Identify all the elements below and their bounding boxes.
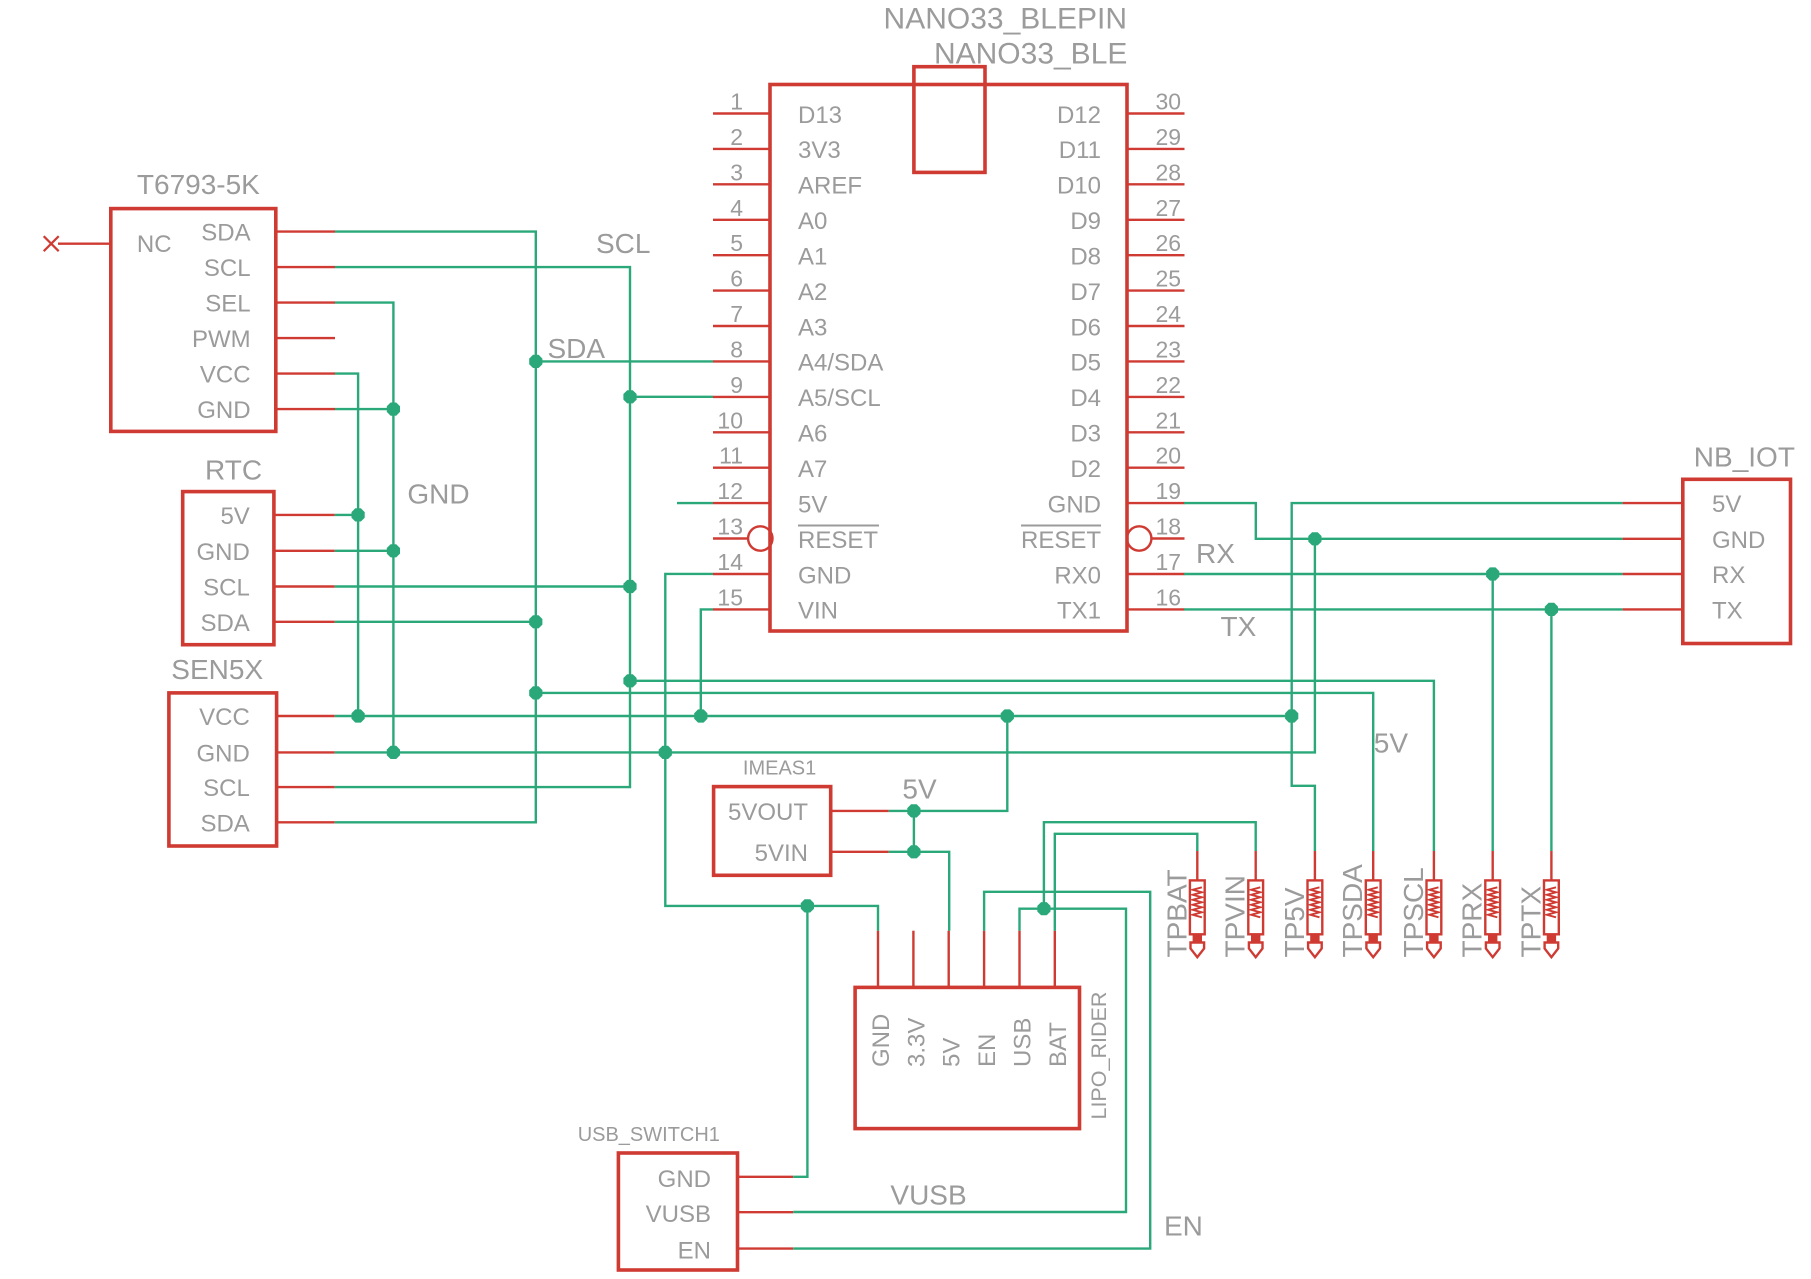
pin 3.3V of LIPO_RIDER [903, 931, 930, 1067]
svg-text:3.3V: 3.3V [903, 1018, 930, 1067]
junction [623, 390, 636, 403]
net label SCL [596, 228, 650, 259]
label T6793-5K [137, 169, 260, 200]
pin 6 A2 [713, 266, 827, 306]
svg-text:5V: 5V [902, 774, 937, 805]
svg-text:USB_SWITCH1: USB_SWITCH1 [578, 1124, 720, 1146]
pin SCL of SEN5X [203, 775, 335, 802]
wire SCL row to TPSCL [630, 681, 1434, 851]
wire EN from USB_SWITCH1 EN [793, 892, 1150, 1249]
svg-text:TPBAT: TPBAT [1161, 869, 1192, 957]
junction [352, 508, 365, 521]
pin 10 A6 [713, 407, 827, 447]
svg-text:RX0: RX0 [1054, 562, 1101, 589]
label TPSCL [1398, 867, 1429, 957]
svg-text:VUSB: VUSB [890, 1180, 966, 1211]
svg-text:5V: 5V [939, 1038, 966, 1067]
label SEN5X [171, 654, 263, 685]
svg-text:RESET: RESET [798, 527, 878, 554]
wire 5V stub at pin 12 [677, 502, 713, 504]
part NANO33_BLE notch [914, 67, 985, 173]
svg-text:PWM: PWM [192, 326, 251, 353]
svg-text:SCL: SCL [203, 575, 250, 602]
svg-text:26: 26 [1156, 230, 1182, 256]
pin 4 A0 [713, 195, 827, 235]
svg-text:VCC: VCC [200, 362, 251, 389]
net label VUSB [890, 1180, 966, 1211]
label NANO33_BLE [934, 37, 1127, 70]
svg-text:GND: GND [1712, 527, 1765, 554]
svg-text:9: 9 [730, 372, 743, 398]
svg-text:D13: D13 [798, 102, 842, 129]
label TPSDA [1337, 864, 1368, 958]
pin RX of NB_IOT [1623, 562, 1746, 589]
pin SCL of RTC [203, 575, 335, 602]
svg-text:SDA: SDA [200, 810, 249, 837]
svg-text:SDA: SDA [200, 610, 249, 637]
svg-text:TP5V: TP5V [1279, 887, 1310, 957]
pin 5V of RTC [220, 503, 334, 530]
net label TX [1221, 611, 1257, 642]
pin 1 D13 [713, 89, 842, 129]
svg-text:11: 11 [719, 443, 743, 469]
svg-text:14: 14 [717, 549, 743, 575]
pin SDA of RTC [200, 610, 334, 637]
svg-text:24: 24 [1156, 301, 1182, 327]
pin SDA of SEN5X [200, 810, 334, 837]
label TPRX [1457, 883, 1488, 958]
svg-text:28: 28 [1156, 159, 1182, 185]
wire RX from pin 17 RX0 to NB_IOT RX [1184, 573, 1623, 575]
svg-text:GND: GND [197, 397, 250, 424]
svg-text:D8: D8 [1070, 244, 1101, 271]
test point TPRX [1485, 851, 1500, 957]
pin 5VIN of IMEAS1 [755, 840, 889, 867]
wire 5V to RTC 5V [335, 514, 358, 516]
svg-text:D5: D5 [1070, 350, 1101, 377]
wire SDA to pin 8 A4/SDA [536, 360, 713, 362]
label NB_IOT [1694, 442, 1795, 473]
junction [623, 580, 636, 593]
svg-text:RESET: RESET [1021, 527, 1101, 554]
junction [623, 674, 636, 687]
svg-text:D7: D7 [1070, 279, 1101, 306]
test point TPSDA [1366, 851, 1381, 957]
svg-text:A6: A6 [798, 421, 827, 448]
svg-text:30: 30 [1156, 89, 1182, 115]
svg-text:SCL: SCL [204, 255, 251, 282]
junction [529, 355, 542, 368]
pin 20 D2 [1070, 443, 1184, 483]
wire 5V dogleg to TP5V [1292, 716, 1315, 851]
svg-text:D9: D9 [1070, 208, 1101, 235]
junction [1545, 603, 1558, 616]
svg-text:5VIN: 5VIN [755, 840, 808, 867]
svg-text:AREF: AREF [798, 173, 862, 200]
svg-text:GND: GND [1048, 491, 1101, 518]
part LIPO_RIDER body [855, 987, 1079, 1128]
svg-text:D11: D11 [1059, 137, 1101, 164]
wire SCL from T6793 SCL down to SEN5X SCL [335, 267, 630, 787]
svg-text:18: 18 [1156, 514, 1182, 540]
svg-text:A2: A2 [798, 279, 827, 306]
pin BAT of LIPO_RIDER [1045, 931, 1072, 1067]
pin 18 RESET [1021, 514, 1185, 554]
svg-text:SDA: SDA [201, 220, 250, 247]
svg-text:12: 12 [717, 478, 743, 504]
svg-text:D10: D10 [1057, 173, 1101, 200]
label RTC [205, 455, 262, 486]
svg-text:2: 2 [730, 124, 743, 150]
wire SCL to RTC SCL [335, 585, 630, 587]
svg-text:NB_IOT: NB_IOT [1694, 442, 1795, 473]
junction [907, 845, 920, 858]
wire TX branch to TPTX [1550, 609, 1552, 851]
junction [694, 709, 707, 722]
svg-text:TPRX: TPRX [1457, 883, 1488, 958]
pin 29 D11 [1059, 124, 1185, 164]
pin SCL of T6793-5K [204, 255, 335, 282]
svg-text:10: 10 [717, 407, 743, 433]
svg-text:EN: EN [974, 1034, 1001, 1067]
svg-text:20: 20 [1156, 443, 1182, 469]
svg-text:5: 5 [730, 230, 743, 256]
wire 5V riser to IMEAS1 5VOUT [889, 716, 1008, 811]
junction [387, 403, 400, 416]
test point TP5V [1308, 851, 1323, 957]
junction [659, 746, 672, 759]
svg-text:16: 16 [1156, 584, 1182, 610]
svg-text:TPVIN: TPVIN [1220, 875, 1251, 957]
pin 7 A3 [713, 301, 827, 341]
wire 5V from pin 15 VIN [701, 609, 713, 716]
svg-text:D6: D6 [1070, 314, 1101, 341]
svg-text:VUSB: VUSB [646, 1201, 711, 1228]
svg-text:A5/SCL: A5/SCL [798, 385, 881, 412]
net label GND [407, 479, 469, 510]
svg-text:8: 8 [730, 336, 743, 362]
svg-text:GND: GND [658, 1166, 711, 1193]
svg-text:17: 17 [1156, 549, 1182, 575]
wire 5VIN to LIPO_RIDER 5V [889, 852, 949, 931]
svg-text:5VOUT: 5VOUT [728, 799, 808, 826]
pin TX of NB_IOT [1623, 597, 1743, 624]
svg-text:NANO33_BLEPIN: NANO33_BLEPIN [884, 3, 1127, 36]
junction [1001, 709, 1014, 722]
svg-text:TPSDA: TPSDA [1337, 864, 1368, 958]
svg-text:T6793-5K: T6793-5K [137, 169, 260, 200]
pin 24 D6 [1070, 301, 1184, 341]
wire GND branch to USB_SWITCH1 GND [793, 906, 807, 1177]
junction [387, 746, 400, 759]
junction [1486, 567, 1499, 580]
svg-text:21: 21 [1156, 407, 1182, 433]
label IMEAS1 [743, 758, 816, 780]
label TPVIN [1220, 875, 1251, 957]
net label 5V [902, 774, 937, 805]
pin GND of SEN5X [196, 740, 334, 767]
pin GND of NB_IOT [1623, 527, 1766, 554]
svg-text:RX: RX [1196, 538, 1235, 569]
pin 21 D3 [1070, 407, 1184, 447]
svg-text:NANO33_BLE: NANO33_BLE [934, 37, 1127, 70]
svg-text:15: 15 [717, 584, 743, 610]
junction [1308, 532, 1321, 545]
no-connect X [44, 236, 59, 251]
svg-text:IMEAS1: IMEAS1 [743, 758, 816, 780]
wire GND from pin 14 down to LIPO_RIDER GND [665, 574, 878, 931]
svg-text:TX1: TX1 [1057, 598, 1101, 625]
svg-text:A1: A1 [798, 244, 827, 271]
svg-text:5V: 5V [220, 503, 249, 530]
junction [352, 709, 365, 722]
svg-text:SEN5X: SEN5X [171, 654, 263, 685]
svg-text:SDA: SDA [548, 333, 606, 364]
test point TPVIN [1248, 851, 1263, 957]
part SEN5X body [169, 693, 277, 846]
svg-text:D3: D3 [1070, 421, 1101, 448]
pin 9 A5/SCL [713, 372, 881, 412]
svg-text:RX: RX [1712, 562, 1745, 589]
svg-text:SCL: SCL [203, 775, 250, 802]
svg-text:EN: EN [1164, 1211, 1203, 1242]
junction [1037, 902, 1050, 915]
pin 17 RX0 [1054, 549, 1184, 589]
svg-text:EN: EN [678, 1238, 711, 1265]
net label SDA [548, 333, 606, 364]
svg-text:SEL: SEL [205, 291, 250, 318]
pin 2 3V3 [713, 124, 841, 164]
svg-text:A4/SDA: A4/SDA [798, 350, 883, 377]
svg-text:LIPO_RIDER: LIPO_RIDER [1087, 992, 1111, 1120]
pin 22 D4 [1070, 372, 1184, 412]
pin 5V of LIPO_RIDER [939, 931, 966, 1067]
wire TX from pin 16 TX1 to NB_IOT TX [1184, 608, 1623, 610]
svg-text:5V: 5V [798, 491, 827, 518]
test point TPSCL [1427, 851, 1442, 957]
svg-text:3: 3 [730, 159, 743, 185]
wire SDA from T6793 SDA down to SEN5X SDA [335, 232, 536, 823]
label USB_SWITCH1 [578, 1124, 720, 1146]
pin VUSB of USB_SWITCH1 [646, 1201, 794, 1228]
pin GND of RTC [196, 539, 334, 566]
svg-text:GND: GND [196, 539, 249, 566]
pin PWM of T6793-5K [192, 326, 335, 353]
pin 16 TX1 [1057, 584, 1185, 624]
svg-text:GND: GND [196, 740, 249, 767]
svg-text:VIN: VIN [798, 598, 838, 625]
pin NC of T6793-5K [58, 231, 172, 258]
svg-text:19: 19 [1156, 478, 1182, 504]
svg-text:13: 13 [717, 514, 743, 540]
svg-text:TPSCL: TPSCL [1398, 867, 1429, 957]
pin USB of LIPO_RIDER [1010, 931, 1037, 1067]
svg-text:A7: A7 [798, 456, 827, 483]
test point TPBAT [1190, 851, 1205, 957]
part IMEAS1 body [714, 787, 831, 876]
label NANO33_BLEPIN [884, 3, 1127, 36]
svg-text:TX: TX [1712, 597, 1743, 624]
svg-text:GND: GND [407, 479, 469, 510]
svg-text:27: 27 [1156, 195, 1182, 221]
wire VUSB from LIPO_RIDER USB [793, 909, 1126, 1212]
pin 11 A7 [713, 443, 827, 483]
pin 27 D9 [1070, 195, 1184, 235]
svg-text:D2: D2 [1070, 456, 1101, 483]
wire SDA to RTC SDA [335, 621, 536, 623]
part RTC body [183, 492, 274, 645]
svg-text:D12: D12 [1057, 102, 1101, 129]
svg-text:5V: 5V [1712, 491, 1741, 518]
pin 3 AREF [713, 159, 862, 199]
wire GND jog from pin 19 to NB_IOT GND [1184, 503, 1623, 539]
pin VCC of SEN5X [199, 704, 335, 731]
wire 5V link 5VOUT to 5VIN [913, 811, 915, 852]
label TP5V [1279, 887, 1310, 957]
junction [1285, 709, 1298, 722]
pin 26 D8 [1070, 230, 1184, 270]
wire VUSB riser to TPVIN [1044, 822, 1256, 909]
pin 8 A4/SDA [713, 336, 883, 376]
svg-text:23: 23 [1156, 336, 1182, 362]
wire SCL to pin 9 A5/SCL [630, 396, 713, 398]
wire SDA row to TPSDA [536, 693, 1373, 851]
svg-text:RTC: RTC [205, 455, 262, 486]
label LIPO_RIDER [1087, 992, 1111, 1120]
svg-text:A3: A3 [798, 314, 827, 341]
svg-text:6: 6 [730, 266, 743, 292]
label TPTX [1515, 886, 1546, 958]
test point TPTX [1544, 851, 1559, 957]
svg-text:GND: GND [868, 1014, 895, 1067]
svg-text:5V: 5V [1374, 728, 1409, 759]
wire GND row from SEN5X GND to NB_IOT GND riser [335, 539, 1315, 753]
wire GND to RTC GND [335, 550, 394, 552]
svg-text:3V3: 3V3 [798, 137, 841, 164]
pin GND of LIPO_RIDER [868, 931, 895, 1067]
svg-text:25: 25 [1156, 266, 1182, 292]
svg-text:D4: D4 [1070, 385, 1101, 412]
junction [529, 615, 542, 628]
wire 5V from T6793 VCC [335, 374, 358, 716]
pin 14 GND [713, 549, 851, 589]
svg-text:7: 7 [730, 301, 743, 327]
svg-text:A0: A0 [798, 208, 827, 235]
svg-text:VCC: VCC [199, 704, 250, 731]
part NANO33_BLE body [770, 85, 1127, 632]
pin 5VOUT of IMEAS1 [728, 799, 889, 826]
wire RX branch to TPRX [1491, 574, 1493, 851]
svg-text:BAT: BAT [1045, 1022, 1072, 1067]
wire 5V to NB_IOT 5V [1292, 503, 1623, 716]
part NB_IOT body [1683, 479, 1791, 643]
net label 5V [1374, 728, 1409, 759]
pin 5V of NB_IOT [1623, 491, 1742, 518]
part T6793-5K body [111, 209, 276, 432]
pin EN of LIPO_RIDER [974, 931, 1001, 1067]
pin 5 A1 [713, 230, 827, 270]
wire GND vertical from T6793 SEL [335, 303, 393, 753]
pin SEL of T6793-5K [205, 291, 335, 318]
junction [801, 899, 814, 912]
pin 30 D12 [1057, 89, 1185, 129]
svg-text:1: 1 [730, 89, 743, 115]
pin EN of USB_SWITCH1 [678, 1238, 794, 1265]
pin SDA of T6793-5K [201, 220, 335, 247]
wire GND from T6793 GND [335, 408, 393, 410]
pin GND of T6793-5K [197, 397, 335, 424]
pin GND of USB_SWITCH1 [658, 1166, 794, 1193]
pin VCC of T6793-5K [200, 362, 335, 389]
junction [529, 686, 542, 699]
svg-text:NC: NC [137, 231, 172, 258]
svg-text:4: 4 [730, 195, 743, 221]
pin 25 D7 [1070, 266, 1184, 306]
svg-text:29: 29 [1156, 124, 1182, 150]
net label RX [1196, 538, 1235, 569]
junction [387, 544, 400, 557]
net label EN [1164, 1211, 1203, 1242]
pin 19 GND [1048, 478, 1185, 518]
part USB_SWITCH1 body [618, 1153, 737, 1270]
pin 23 D5 [1070, 336, 1184, 376]
wire 5V row from SEN5X VCC [335, 715, 1292, 717]
junction [907, 804, 920, 817]
pin 13 RESET [713, 514, 879, 554]
svg-text:TX: TX [1221, 611, 1257, 642]
pin 12 5V [713, 478, 827, 518]
svg-text:SCL: SCL [596, 228, 650, 259]
svg-text:22: 22 [1156, 372, 1182, 398]
svg-text:USB: USB [1010, 1018, 1037, 1067]
svg-text:TPTX: TPTX [1515, 886, 1546, 958]
label TPBAT [1161, 869, 1192, 957]
pin 28 D10 [1057, 159, 1185, 199]
wire BAT from LIPO_RIDER BAT to TPBAT [1055, 834, 1198, 931]
pin 15 VIN [713, 584, 838, 624]
svg-text:GND: GND [798, 562, 851, 589]
